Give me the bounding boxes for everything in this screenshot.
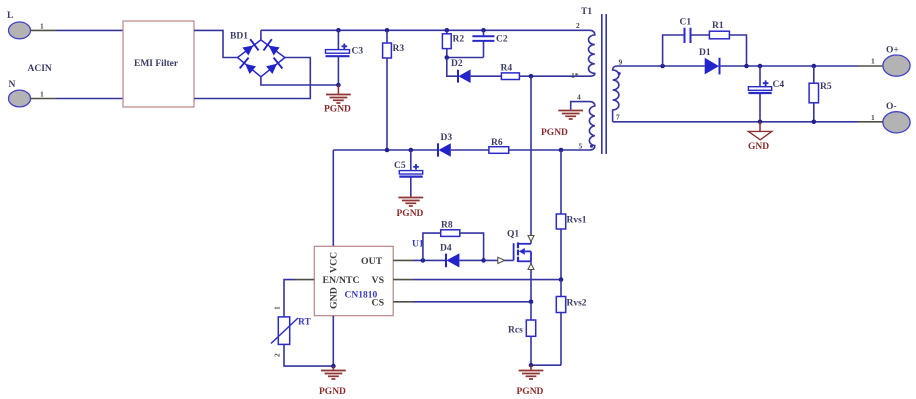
- connector O-: [883, 102, 910, 133]
- wire C1 to R1: [691, 34, 710, 36]
- svg-text:PGND: PGND: [397, 209, 424, 219]
- polarity dot secondary winding: [618, 72, 621, 75]
- wire clamp node down to D2: [447, 58, 458, 77]
- wire pin 9 to D1: [617, 65, 705, 67]
- svg-text:Rvs1: Rvs1: [567, 216, 587, 226]
- transformer T1 primary winding pins 2-1: [588, 30, 594, 76]
- svg-text:5: 5: [579, 142, 583, 151]
- wire N to EMI filter: [56, 98, 123, 100]
- resistor R5: [809, 66, 818, 122]
- wire D4 anode to gate node: [459, 259, 483, 261]
- svg-text:VCC: VCC: [329, 252, 340, 273]
- svg-text:O-: O-: [886, 102, 897, 112]
- node R2/C2/D2: [445, 55, 450, 60]
- EMI filter block: [123, 21, 194, 107]
- diode D3: [438, 143, 451, 157]
- thermistor RT: [271, 317, 298, 345]
- wire EMI bottom out to bridge right corner: [194, 58, 310, 99]
- wire D3 anode to R6: [451, 149, 489, 151]
- ground PGND at IC: [319, 366, 346, 397]
- wire pin 7 bottom rail: [613, 121, 858, 123]
- wire L to EMI filter: [56, 29, 123, 31]
- capacitor C1: [685, 28, 691, 43]
- svg-text:R8: R8: [441, 221, 453, 231]
- resistor Rcs: [526, 302, 535, 365]
- svg-text:EMI Filter: EMI Filter: [134, 59, 179, 69]
- wire GND pin down: [332, 316, 334, 366]
- svg-text:1*: 1*: [571, 71, 579, 80]
- node power ground: [529, 363, 534, 368]
- svg-text:4: 4: [577, 93, 581, 102]
- node C4 top: [758, 64, 763, 69]
- transformer T1 core: [602, 14, 606, 154]
- node OUT / R8 left: [421, 258, 426, 263]
- ground PGND at C3: [324, 85, 351, 115]
- svg-text:9: 9: [619, 58, 623, 67]
- svg-text:PGND: PGND: [319, 387, 346, 397]
- node C3 / bridge ground: [336, 83, 341, 88]
- node R4 / drain: [529, 74, 534, 79]
- svg-text:Rcs: Rcs: [508, 326, 523, 336]
- resistor Rvs1: [556, 150, 565, 280]
- svg-text:C3: C3: [352, 47, 364, 57]
- svg-text:Q1: Q1: [507, 230, 519, 240]
- svg-text:R4: R4: [501, 64, 513, 74]
- svg-text:R1: R1: [712, 21, 724, 31]
- svg-text:D2: D2: [451, 59, 463, 69]
- svg-text:R3: R3: [393, 44, 405, 54]
- wire VCC drop to IC: [332, 150, 334, 246]
- node IC ground: [331, 364, 336, 369]
- wire gate wire to Q1: [484, 259, 514, 261]
- node D4 / R8 right: [481, 258, 486, 263]
- svg-text:R5: R5: [820, 82, 832, 92]
- wire C2 bottom to R2 bottom: [447, 57, 484, 59]
- svg-text:VS: VS: [372, 275, 385, 286]
- resistor R3: [383, 30, 392, 150]
- wire R6 to transformer pin 5: [509, 149, 590, 151]
- node DC+ at R3: [385, 28, 390, 33]
- svg-text:Rvs2: Rvs2: [567, 299, 587, 309]
- wire O+ pin stub: [858, 65, 883, 67]
- node aux rail at Rvs1: [559, 148, 564, 153]
- transistor Q1: [514, 242, 531, 262]
- svg-text:1: 1: [273, 306, 282, 310]
- svg-text:T1: T1: [581, 7, 592, 17]
- resistor R1: [709, 31, 729, 39]
- wire D1 cathode to output rail: [720, 65, 859, 67]
- resistor R4: [501, 73, 519, 80]
- wire RT bottom to ground node: [284, 344, 333, 366]
- svg-text:D1: D1: [699, 48, 711, 58]
- node R5 bottom: [812, 120, 817, 125]
- node DC+ at C2: [481, 28, 486, 33]
- svg-text:R2: R2: [453, 35, 465, 45]
- connector N: [9, 80, 31, 107]
- resistor Rvs2: [556, 280, 565, 366]
- transformer T1 secondary winding pins 9-7: [613, 66, 619, 122]
- wire snubber right leg: [729, 35, 746, 66]
- wire CS pin stub: [393, 301, 413, 303]
- wire bridge bottom corner to ground rail: [261, 77, 339, 85]
- capacitor C4: [748, 66, 771, 122]
- svg-text:R6: R6: [491, 138, 503, 148]
- wire C3 bottom lead: [337, 56, 339, 85]
- svg-text:RT: RT: [298, 318, 312, 328]
- wire aux rail left segment: [333, 149, 438, 151]
- connector O+: [883, 46, 910, 77]
- node snubber left: [660, 64, 665, 69]
- polarity dot aux winding: [590, 145, 593, 148]
- svg-text:2: 2: [576, 21, 580, 30]
- bridge rectifier BD1: [238, 39, 285, 77]
- svg-text:L: L: [7, 11, 13, 21]
- svg-text:C4: C4: [773, 80, 785, 90]
- node snubber right: [744, 64, 749, 69]
- svg-text:ACIN: ACIN: [28, 64, 52, 74]
- wire bridge top corner to DC+ rail: [260, 30, 262, 40]
- svg-text:GND: GND: [329, 287, 340, 309]
- wire R8 left leg: [423, 233, 441, 260]
- svg-text:1: 1: [40, 90, 44, 99]
- svg-text:EN/NTC: EN/NTC: [323, 275, 360, 286]
- wire EN/NTC pin stub: [295, 279, 314, 281]
- wire D2 anode to R4: [471, 75, 502, 77]
- capacitor C2: [472, 30, 494, 57]
- svg-text:O+: O+: [886, 46, 899, 56]
- wire EMI top out to bridge left corner: [194, 30, 238, 57]
- resistor R6: [489, 147, 509, 154]
- node VS divider: [559, 277, 564, 282]
- wire R4 to transformer pin 1*: [519, 75, 589, 77]
- svg-text:D3: D3: [441, 133, 453, 143]
- ground GND at output: [748, 122, 772, 152]
- node aux rail at R3: [385, 148, 390, 153]
- wire Rvs2 bottom to ground node: [531, 364, 561, 366]
- svg-text:N: N: [9, 80, 16, 90]
- source arrow: [528, 264, 534, 270]
- svg-text:1: 1: [40, 22, 44, 31]
- wire C3 top lead: [337, 30, 339, 49]
- wire L pin stub: [31, 29, 57, 31]
- wire O- pin stub: [858, 121, 883, 123]
- svg-text:PGND: PGND: [517, 387, 544, 397]
- wire drain line down to Q1: [530, 76, 532, 244]
- drain arrow: [528, 236, 534, 242]
- svg-text:OUT: OUT: [361, 256, 383, 267]
- svg-text:1: 1: [871, 113, 875, 122]
- wire OUT to D4 node: [413, 259, 446, 261]
- wire R8 right leg: [460, 233, 484, 260]
- node aux rail at C5: [409, 148, 414, 153]
- wire Q1 source down: [530, 261, 532, 302]
- diode D4: [446, 253, 459, 267]
- capacitor C3: [326, 44, 350, 57]
- svg-text:C5: C5: [394, 161, 406, 171]
- svg-text:PGND: PGND: [324, 105, 351, 115]
- transformer T1 aux winding pins 4-5: [589, 102, 594, 150]
- ground PGND at Rcs: [517, 365, 544, 397]
- wire snubber left leg: [663, 35, 685, 66]
- svg-text:7: 7: [616, 113, 620, 122]
- resistor R2: [442, 30, 451, 57]
- node DC+ at R2: [445, 28, 450, 33]
- connector L: [7, 11, 31, 39]
- wire DC+ top rail: [261, 29, 590, 31]
- gate direction arrow: [498, 257, 505, 263]
- diode D2: [458, 69, 471, 83]
- node C4 bottom: [758, 120, 763, 125]
- resistor R8: [441, 230, 460, 237]
- node R5 top: [812, 64, 817, 69]
- svg-text:GND: GND: [748, 142, 769, 152]
- svg-text:PGND: PGND: [541, 128, 568, 138]
- wire EN/NTC to RT: [284, 280, 295, 317]
- wire VS pin stub: [393, 279, 413, 281]
- svg-text:BD1: BD1: [230, 32, 248, 42]
- ground PGND at T1 pin 4: [541, 111, 583, 139]
- svg-text:C2: C2: [496, 35, 508, 45]
- svg-text:CN1810: CN1810: [345, 291, 378, 301]
- diode D1: [705, 58, 720, 75]
- svg-text:1: 1: [871, 57, 875, 66]
- node DC+ at C3: [336, 28, 341, 33]
- wire T1 pin 4 to ground: [571, 102, 590, 110]
- ground PGND at C5: [397, 196, 424, 220]
- svg-text:2: 2: [273, 353, 282, 357]
- capacitor C5: [399, 150, 422, 196]
- svg-text:D4: D4: [440, 244, 452, 254]
- op-amp/controller U CN1810: [314, 246, 393, 315]
- wire VS to divider: [413, 279, 561, 281]
- wire N pin stub: [31, 98, 57, 100]
- node CS / source / Rcs: [529, 300, 534, 305]
- svg-text:C1: C1: [680, 18, 692, 28]
- wire OUT pin stub: [393, 259, 413, 261]
- wire CS to sense node: [413, 301, 531, 303]
- svg-text:U1: U1: [412, 240, 424, 250]
